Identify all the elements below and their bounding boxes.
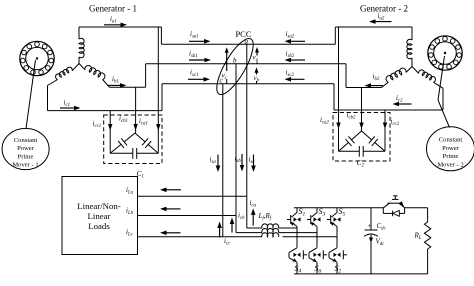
svg-text:Power: Power xyxy=(17,145,35,152)
svg-text:Generator - 2: Generator - 2 xyxy=(360,4,408,14)
svg-text:Loads: Loads xyxy=(88,221,110,231)
svg-text:+: + xyxy=(368,222,372,230)
svg-text:Power: Power xyxy=(442,145,460,152)
svg-text:Constant: Constant xyxy=(439,137,463,144)
svg-text:Linear: Linear xyxy=(88,211,111,221)
svg-text:b: b xyxy=(233,57,237,65)
svg-text:Linear/Non-: Linear/Non- xyxy=(77,201,121,211)
svg-text:a: a xyxy=(245,38,249,46)
svg-text:Constant: Constant xyxy=(14,137,38,144)
svg-text:Generator - 1: Generator - 1 xyxy=(89,4,137,14)
svg-text:Mover - 2: Mover - 2 xyxy=(437,162,463,169)
svg-text:Mover - 1: Mover - 1 xyxy=(12,162,38,169)
svg-text:Prime: Prime xyxy=(18,153,34,160)
svg-text:Prime: Prime xyxy=(443,153,459,160)
